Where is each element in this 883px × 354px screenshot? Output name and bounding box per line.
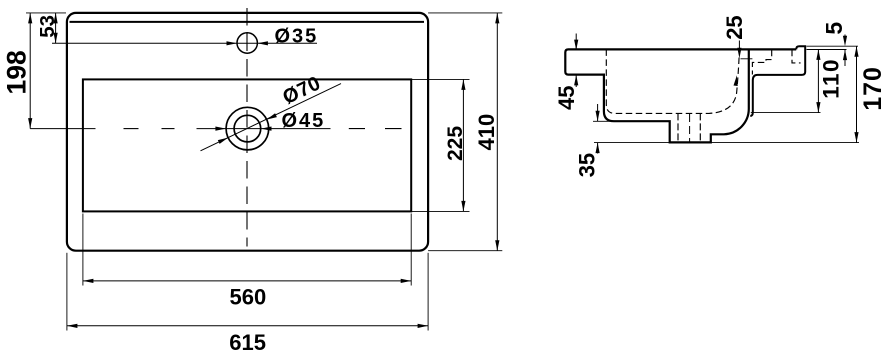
svg-text:53: 53 [36, 15, 59, 38]
faucet centerline leader with arrow [52, 42, 317, 44]
dimension 170 line and arrows [856, 46, 858, 142]
drain pipe centerline [689, 114, 691, 142]
svg-text:35: 35 [575, 153, 600, 177]
label Ø70 diagonal leader [201, 84, 342, 151]
dimension 560 extension lines [82, 214, 84, 286]
dimension 25 step extension [741, 58, 753, 60]
rear deck edge line [70, 21, 425, 23]
horizontal centerline dashes [124, 128, 402, 130]
dimension 53 line [55, 13, 57, 43]
extension line drain boss bottom [712, 142, 860, 144]
extension line deck top [807, 49, 847, 51]
dimension 45 line and arrows [575, 34, 577, 51]
dimension 198 line [29, 13, 31, 129]
bowl interior hidden line [606, 49, 739, 113]
svg-text:170: 170 [859, 66, 883, 111]
dimension 225 line [462, 79, 464, 211]
overflow channel hidden line [752, 50, 771, 75]
label Ø45 leader arrow [261, 127, 272, 131]
dimension 198 extension line top [26, 12, 66, 14]
basin outer rim (rounded rectangle) [67, 13, 428, 251]
dimension 110 line and arrows [817, 49, 819, 112]
basin bowl inner rectangle [83, 79, 411, 211]
rear recess hidden line [792, 50, 801, 63]
dimension 35 extension lines [593, 120, 614, 122]
dimension 410 extension lines [428, 12, 502, 14]
svg-text:225: 225 [444, 126, 467, 161]
dimension 5 line and arrows [844, 35, 846, 38]
section outer profile [565, 49, 796, 142]
svg-text:560: 560 [230, 285, 267, 310]
label Ø35 leader arrow [257, 41, 268, 45]
dimension 615 line [67, 325, 428, 327]
dimension 35 line and arrows [597, 104, 599, 121]
dimension 225 extension lines [411, 78, 469, 80]
svg-text:615: 615 [229, 330, 266, 354]
dimension 560 line [83, 280, 411, 282]
dimension 615 extension lines [66, 253, 68, 331]
dimension 25 line and arrows [738, 41, 740, 49]
faucet hole Ø35 [237, 33, 257, 53]
svg-text:5: 5 [821, 22, 847, 35]
svg-text:110: 110 [819, 58, 844, 99]
svg-text:410: 410 [474, 114, 499, 151]
drain centerline leader arrow [197, 128, 331, 130]
drain pipe hidden line right [699, 113, 701, 142]
svg-text:25: 25 [722, 15, 747, 39]
vertical centerline [246, 8, 248, 247]
drain pipe hidden line left [677, 113, 679, 142]
drain hole inner Ø45 [234, 115, 261, 142]
svg-text:Ø45: Ø45 [282, 110, 326, 132]
svg-text:45: 45 [554, 86, 579, 110]
extension line rim top [807, 45, 859, 47]
svg-text:198: 198 [2, 50, 32, 94]
dimension 198 leader to drain centerline [30, 128, 95, 130]
dimension 410 line [496, 13, 498, 251]
extension line bowl interior bottom [751, 112, 821, 114]
section rear apron profile [750, 46, 805, 116]
svg-text:Ø35: Ø35 [275, 25, 319, 47]
drain hole outer Ø70 [226, 107, 269, 150]
